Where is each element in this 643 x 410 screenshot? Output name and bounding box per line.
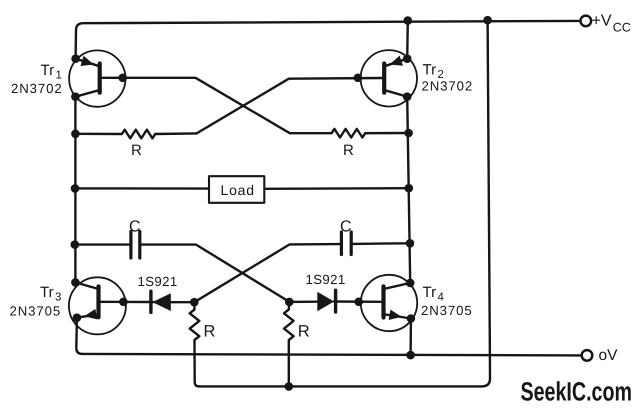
wire inner right rail middle segment <box>407 97 410 283</box>
node dot Tr1 collector on left rail <box>71 92 80 101</box>
transistor Tr2 circle <box>361 50 417 106</box>
transistor Tr2 emitter arrow (PNP) <box>390 56 403 66</box>
node dot Tr3 emitter on left rail <box>73 313 82 322</box>
node dot left rail at left R <box>71 130 80 139</box>
wire Tr3 base to left diode to node <box>101 301 195 304</box>
wire left rail lower segment and 0V horizontal line <box>76 318 582 356</box>
node dot Tr4 base <box>354 298 363 307</box>
node dot inner rail at load line <box>405 184 414 193</box>
svg-text:C: C <box>340 219 352 236</box>
label Tr2 <box>423 62 444 82</box>
node dot Tr4 collector on inner rail <box>406 279 415 288</box>
node dot inner rail at right R <box>404 129 413 138</box>
resistor R bottom-right with wire down to bottom line <box>284 302 294 387</box>
svg-text:Load: Load <box>221 182 255 198</box>
svg-text:CC: CC <box>613 21 631 35</box>
wire outer right rail and bottom return line <box>199 20 491 386</box>
wire top rail +Vcc and left rail upper segment <box>76 21 581 59</box>
transistor Tr1 collector wire <box>75 90 99 97</box>
svg-text:Tr: Tr <box>423 62 437 79</box>
svg-text:3: 3 <box>55 292 61 304</box>
wire node to right diode to Tr4 base <box>289 300 381 303</box>
svg-text:oV: oV <box>599 347 619 364</box>
node dot bottom line at right R <box>285 382 294 391</box>
transistor Tr4 collector wire <box>384 283 411 289</box>
wire load line left segment <box>75 187 209 190</box>
node dot Tr2 base <box>354 74 363 83</box>
load box <box>209 176 264 203</box>
wire inner right rail above Tr2 <box>406 21 409 59</box>
node dot Tr3 collector on left rail <box>71 278 80 287</box>
wire right C line with diagonal down to left diode node <box>194 243 410 302</box>
node dot inner rail at 0V line <box>406 351 415 360</box>
node dot Tr1 base <box>118 74 127 83</box>
svg-text:1S921: 1S921 <box>138 274 178 289</box>
transistor Tr2 emitter wire <box>384 59 407 67</box>
svg-text:Tr: Tr <box>41 62 55 79</box>
node dot left diode to R junction <box>190 298 199 307</box>
label Tr1 <box>41 62 62 82</box>
svg-text:2N3702: 2N3702 <box>11 81 63 96</box>
svg-text:1S921: 1S921 <box>306 272 346 287</box>
node dot top rail at inner rail <box>404 16 413 25</box>
svg-text:2N3705: 2N3705 <box>10 304 62 319</box>
node dot top rail at outer rail <box>483 16 492 25</box>
wire Tr1 base lead and diagonal to right R <box>101 78 290 133</box>
transistor Tr4 circle <box>361 275 417 331</box>
diode 1S921 right triangle <box>317 292 334 311</box>
capacitor C left plates <box>131 232 140 259</box>
diode D2 1S921 right cathode bar <box>334 290 337 312</box>
resistor R top-right <box>290 129 409 138</box>
wire left C line with diagonal down to right diode node <box>75 245 289 302</box>
transistor Tr3 circle <box>69 277 126 334</box>
capacitor C right plates <box>341 232 351 255</box>
label +Vcc <box>592 13 631 35</box>
label Tr4 <box>423 284 445 304</box>
transistor Tr3 base bar <box>96 286 100 317</box>
diode 1S921 left triangle <box>152 293 170 311</box>
transistor Tr3 collector wire <box>75 282 98 289</box>
svg-text:R: R <box>131 142 142 159</box>
wire left rail middle segment <box>74 97 76 283</box>
node dot Tr4 emitter on inner rail <box>407 314 416 323</box>
transistor Tr3 emitter arrow (NPN) <box>84 309 97 320</box>
svg-text:1: 1 <box>56 70 62 82</box>
transistor Tr1 base bar <box>98 64 102 93</box>
transistor Tr4 emitter wire <box>384 314 411 318</box>
terminal 0V open circle <box>582 350 593 361</box>
svg-text:R: R <box>298 322 310 340</box>
node dot left rail at load line <box>71 184 80 193</box>
svg-text:Tr: Tr <box>423 284 437 301</box>
resistor R top-left <box>75 130 196 139</box>
node dot Tr3 base <box>119 298 128 307</box>
node dot Tr2 collector on inner rail <box>403 92 412 101</box>
wire Tr2 base lead and diagonal to left R <box>197 78 383 133</box>
svg-text:4: 4 <box>438 292 445 304</box>
transistor Tr4 emitter arrow (NPN) <box>389 310 402 320</box>
wire load line right segment <box>264 187 409 190</box>
transistor Tr1 emitter arrow (PNP) <box>81 56 94 66</box>
node dot Tr1 emitter on left rail <box>71 54 80 63</box>
label Tr3 <box>40 284 61 304</box>
diode D1 1S921 left cathode bar <box>149 291 152 312</box>
terminal +Vcc open circle <box>581 16 592 27</box>
transistor Tr4 base bar <box>381 286 385 317</box>
transistor Tr2 collector wire <box>384 90 407 97</box>
node dot left rail at left C <box>71 240 80 249</box>
svg-text:2N3705: 2N3705 <box>421 303 473 318</box>
svg-text:R: R <box>343 142 354 159</box>
node dot right diode to R junction <box>285 298 294 307</box>
transistor Tr3 emitter wire <box>77 314 99 318</box>
node dot Tr2 emitter on inner rail <box>403 54 412 63</box>
svg-text:2N3702: 2N3702 <box>422 79 474 94</box>
svg-text:SeekIC.com: SeekIC.com <box>521 377 633 407</box>
svg-text:Tr: Tr <box>40 284 54 301</box>
node dot inner rail at right C <box>406 239 415 248</box>
resistor R bottom-left with wire down to bottom line <box>190 302 200 386</box>
svg-text:R: R <box>204 322 216 340</box>
transistor Tr1 emitter wire <box>76 59 100 67</box>
transistor Tr2 base bar <box>382 64 386 93</box>
svg-text:+V: +V <box>592 13 612 30</box>
wire inner right rail below Tr4 <box>409 319 412 356</box>
svg-text:C: C <box>129 218 141 235</box>
transistor Q Tr1 circle <box>69 50 125 106</box>
